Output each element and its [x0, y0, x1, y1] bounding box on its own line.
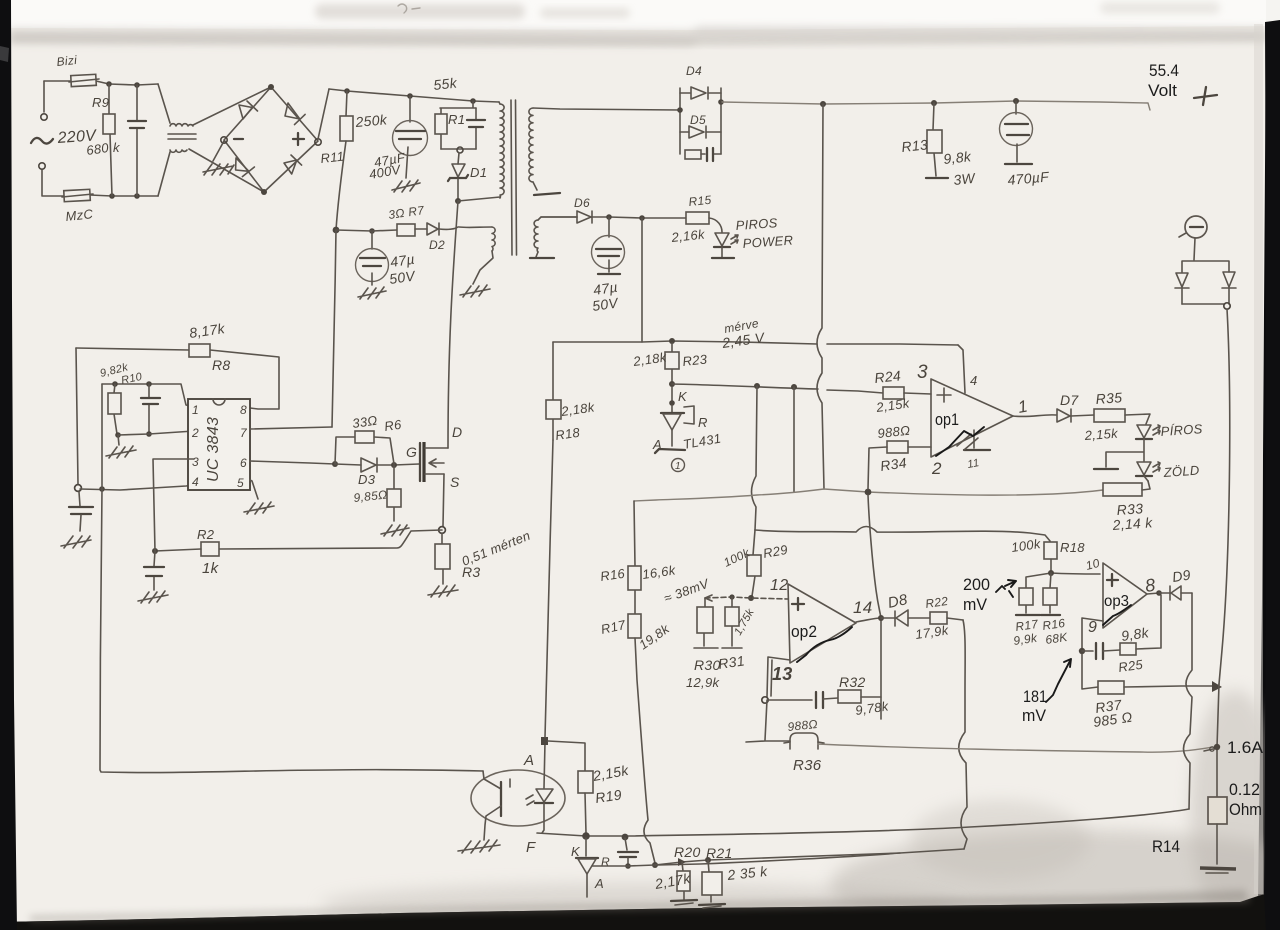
- LED PIROS: [1137, 425, 1151, 438]
- top white band above fold: [10, 0, 1266, 30]
- capacitor at left bus: [79, 492, 80, 506]
- wire: vertical from output rail with hops: [817, 104, 824, 489]
- bridge diode bottom-left: [236, 158, 255, 177]
- wire: choke to bridge top: [193, 87, 271, 125]
- wire: aux sense vertical: [641, 218, 643, 342]
- ground at 47u50V: [358, 287, 386, 299]
- svg-text:op1: op1: [935, 410, 959, 429]
- resistor R30: [704, 598, 705, 646]
- resistor R35: [1094, 409, 1125, 422]
- wire: 2,45V drop to op2/op3 with hop: [752, 386, 758, 530]
- svg-text:UC 3843: UC 3843: [205, 417, 222, 482]
- svg-text:11: 11: [966, 457, 980, 471]
- wire: pin7 VCC: [250, 427, 332, 429]
- resistor R34: [887, 441, 908, 453]
- wire: VCC vertical from aux cap: [332, 230, 336, 427]
- plus terminal hand-drawn: [1194, 87, 1217, 105]
- LED power indicator: [715, 233, 729, 246]
- resistor R24: [883, 387, 904, 399]
- svg-text:op2: op2: [791, 622, 817, 641]
- bridge diode top-right: [285, 103, 305, 125]
- diode block right vertical: [720, 88, 722, 154]
- diode D7: [1057, 409, 1071, 422]
- svg-text:3: 3: [192, 455, 199, 469]
- svg-text:D9: D9: [1171, 567, 1192, 585]
- ground below 9,85: [381, 525, 409, 536]
- svg-text:14: 14: [853, 598, 873, 617]
- capacitor at R2: [154, 551, 155, 590]
- svg-text:R13: R13: [901, 136, 929, 155]
- resistor R8 top loop: [76, 348, 279, 409]
- svg-text:K: K: [571, 844, 581, 859]
- resistor R22: [930, 612, 947, 624]
- plus input mark: [937, 388, 951, 402]
- resistor R16: [634, 501, 635, 614]
- node 1.6A measure: [1214, 744, 1220, 750]
- svg-text:680: 680: [85, 140, 110, 158]
- svg-text:A: A: [523, 752, 534, 769]
- svg-text:R32: R32: [839, 674, 866, 690]
- resistor R13 bleeder: [933, 103, 936, 176]
- resistor R18: [552, 342, 554, 440]
- gray smudges top: [315, 4, 525, 19]
- svg-text:K: K: [678, 389, 688, 404]
- ground at aux winding: [460, 285, 490, 297]
- resistor R37: [1098, 681, 1124, 694]
- AC source symbol ~: [31, 138, 53, 144]
- resistor R23: [671, 343, 673, 381]
- svg-text:2,15k: 2,15k: [1083, 426, 1119, 443]
- svg-text:R18: R18: [1060, 540, 1085, 555]
- capacitor X-cap: [136, 85, 138, 196]
- svg-text:Bizi: Bizi: [56, 53, 78, 69]
- resistor R2: [201, 542, 219, 556]
- wire: feedback line: [768, 699, 812, 701]
- svg-text:mV: mV: [1022, 706, 1047, 725]
- svg-text:3: 3: [917, 362, 928, 383]
- wire: R34 node down to op2 output: [868, 495, 881, 618]
- choke core: [168, 134, 196, 139]
- svg-text:9: 9: [1088, 619, 1097, 636]
- svg-text:R23: R23: [682, 351, 709, 369]
- svg-text:ZÖLD: ZÖLD: [1162, 463, 1200, 481]
- svg-text:R8: R8: [212, 357, 231, 373]
- choke bottom winding: [158, 152, 170, 196]
- op-amp op1: [931, 379, 1013, 457]
- wire: source down: [443, 474, 444, 526]
- svg-text:D: D: [452, 424, 462, 440]
- svg-text:4: 4: [970, 373, 978, 388]
- svg-text:R20: R20: [674, 844, 701, 860]
- wire: 2,45V reference line: [672, 384, 883, 393]
- ink arrow 181mV: [1046, 659, 1071, 702]
- wire: aux mid rail y342: [553, 341, 958, 345]
- right black bar: [1264, 20, 1280, 930]
- svg-text:2,14 k: 2,14 k: [1111, 514, 1154, 533]
- resistor R29 100k: [752, 530, 755, 596]
- op-amp op3: [1103, 563, 1147, 628]
- svg-text:1: 1: [675, 461, 681, 472]
- wire: AC neutral bottom: [90, 195, 158, 196]
- svg-text:S: S: [450, 474, 460, 490]
- svg-text:PIROS: PIROS: [735, 215, 778, 233]
- wire: right shunt bus: [1217, 684, 1219, 797]
- svg-text:R3: R3: [462, 564, 481, 580]
- wire: D9 down with hops to opto line: [1184, 593, 1193, 809]
- fold shadow band: [10, 26, 1266, 46]
- svg-text:R36: R36: [793, 757, 822, 774]
- svg-text:D7: D7: [1060, 392, 1079, 408]
- resistor R31: [731, 597, 733, 646]
- resistor R25: [1120, 643, 1136, 655]
- wire: R18 column down to A node: [545, 440, 553, 737]
- fuse F2 (MzC): [64, 189, 91, 201]
- svg-text:D6: D6: [574, 196, 590, 210]
- resistor R15: [686, 212, 709, 224]
- svg-text:181: 181: [1023, 687, 1047, 706]
- node arrow at shunt bus: [1212, 681, 1222, 692]
- capacitor feedback op3: [1082, 650, 1093, 652]
- wire: pin5 to ground: [250, 480, 258, 499]
- svg-text:5: 5: [237, 476, 244, 490]
- left black bar: [0, 0, 17, 930]
- opto transistor: [483, 771, 501, 789]
- resistor R16b: [1050, 573, 1051, 613]
- svg-text:7: 7: [240, 426, 248, 440]
- wire: ref line to op3 divider with hop: [755, 527, 1050, 542]
- ground at left cap: [61, 536, 91, 548]
- wire: right bus down: [1219, 309, 1230, 684]
- wire: feedback rail y490: [634, 489, 824, 501]
- diode D6: [577, 211, 592, 223]
- resistor R36: [790, 733, 818, 749]
- TL431 U4 shunt: [585, 838, 587, 856]
- resistor R17b: [1025, 605, 1027, 613]
- svg-text:8: 8: [240, 403, 247, 417]
- wire: op2 plus input line: [705, 597, 788, 599]
- svg-text:1.6A: 1.6A: [1227, 738, 1264, 757]
- wire: op1 pin4 supply drop: [958, 345, 965, 393]
- bottom-right scanner gray wash: [830, 830, 1280, 930]
- wire: divider tie vertical: [793, 387, 795, 492]
- wire: pin6 gate drive: [250, 461, 335, 464]
- capacitor at R10: [148, 384, 150, 433]
- faint handwriting mark top center: [398, 4, 420, 13]
- resistor R33: [1103, 483, 1142, 496]
- wire: AC live top: [44, 81, 158, 85]
- svg-text:D2: D2: [429, 238, 445, 252]
- optocoupler U3: [471, 770, 565, 826]
- resistor R18b 100k: [1044, 542, 1057, 559]
- wire: bridge+ to top rail: [318, 89, 329, 139]
- fuse F1 (Bizi): [71, 74, 97, 86]
- wire: between LEDs + left stub: [1106, 439, 1144, 467]
- wire: pin13 bracket down: [767, 657, 790, 697]
- svg-text:A: A: [652, 437, 662, 452]
- bridge diode bottom-right: [284, 155, 302, 174]
- resistor R10: [114, 384, 117, 434]
- resistor R21: [708, 860, 711, 902]
- bridge diode top-left: [239, 101, 258, 119]
- svg-text:1: 1: [192, 403, 199, 417]
- wire: diode pair bottom: [1182, 303, 1224, 305]
- svg-text:G: G: [406, 444, 417, 460]
- diode block D4/D5 left vertical: [679, 88, 681, 154]
- node R20 tap: [678, 858, 686, 866]
- svg-text:R9: R9: [92, 95, 109, 110]
- svg-text:MzC: MzC: [65, 206, 94, 224]
- wire: pin13 node down to R36: [765, 700, 767, 740]
- wire: R10 top rail to pin1: [102, 384, 195, 407]
- svg-text:200: 200: [963, 575, 990, 594]
- node: AC terminal top (open): [41, 114, 47, 120]
- capacitor 47uF 400V electrolytic: [409, 96, 411, 122]
- wire: pin9 node down to R37: [1082, 654, 1098, 689]
- resistor R7 3ohm: [397, 224, 415, 236]
- svg-text:R15: R15: [688, 193, 712, 209]
- svg-text:R24: R24: [874, 367, 902, 386]
- transformer aux winding: [492, 227, 495, 251]
- transistor Q1 MOSFET: [419, 443, 421, 481]
- wire: op1 output: [1013, 415, 1056, 417]
- resistor R19: [578, 771, 593, 793]
- node junction: [106, 81, 112, 87]
- wire: op2 output to D8: [856, 618, 881, 622]
- svg-text:1k: 1k: [202, 560, 220, 577]
- wire: long left vertical to optocoupler: [100, 489, 483, 773]
- svg-text:op3: op3: [1104, 593, 1129, 610]
- ground below R10: [118, 435, 119, 445]
- wire: R22 output down with two hops: [959, 620, 967, 849]
- diode D4: [680, 92, 690, 94]
- svg-text:D3: D3: [358, 472, 376, 487]
- capacitor feedback: [816, 692, 823, 708]
- bridge rectifier diamond: [224, 87, 318, 192]
- node A square: [541, 737, 548, 745]
- resistor R20: [682, 862, 684, 899]
- svg-text:55.4: 55.4: [1149, 61, 1179, 80]
- diode DA: [1175, 273, 1189, 288]
- resistor 9,85ohm gate pulldown: [393, 465, 395, 521]
- diode D1 zener: [458, 153, 459, 164]
- svg-text:9,8k: 9,8k: [943, 148, 973, 167]
- node: [455, 198, 461, 204]
- resistor R32: [838, 690, 861, 703]
- diode D8: [895, 610, 908, 626]
- choke / line filter top winding: [158, 84, 170, 123]
- svg-text:R30: R30: [694, 657, 721, 673]
- wire: D6 rail from lower secondary: [541, 216, 577, 218]
- svg-text:2: 2: [191, 426, 199, 440]
- svg-text:R: R: [601, 855, 610, 869]
- meter minus circle: [1185, 216, 1207, 238]
- wire: divider column down with hop over opto rail: [635, 638, 655, 863]
- ink pointer op2 to pin13: [797, 627, 852, 662]
- svg-text:A: A: [594, 876, 604, 891]
- wire: pin4 line: [80, 485, 195, 490]
- resistor R11 250k: [346, 91, 347, 116]
- wire: TL431 ref line: [592, 853, 900, 866]
- diode pair rectangle top: [1182, 261, 1229, 272]
- node open at left bus: [75, 485, 82, 492]
- LED ZOLD: [1137, 462, 1151, 475]
- diode DB: [1222, 272, 1236, 288]
- wire: choke to bridge bottom: [189, 149, 264, 192]
- svg-text:F: F: [526, 839, 536, 856]
- wire: op3 output: [1147, 593, 1159, 594]
- label plus: [293, 133, 304, 145]
- op-amp op2: [788, 584, 856, 663]
- capacitor at TL431 ref: [625, 838, 627, 850]
- wire: opto drive line long: [628, 809, 1189, 836]
- snubber R1: [440, 101, 476, 149]
- svg-text:R2: R2: [197, 527, 215, 542]
- svg-text:2: 2: [931, 459, 942, 478]
- diode D5: [680, 131, 689, 133]
- svg-text:PÍROS: PÍROS: [1160, 421, 1203, 439]
- svg-text:Volt: Volt: [1148, 81, 1177, 100]
- svg-text:mV: mV: [963, 595, 988, 614]
- transformer primary winding: [499, 102, 500, 104]
- svg-text:R: R: [698, 415, 708, 430]
- transformer core: [511, 100, 517, 255]
- TL431 U2: [671, 387, 673, 403]
- wire: aux rail: [336, 230, 397, 231]
- wire: divider node line: [1026, 573, 1100, 588]
- wire: minus to diode pair: [1194, 238, 1195, 260]
- svg-text:D4: D4: [686, 64, 702, 78]
- svg-text:12: 12: [770, 577, 788, 594]
- svg-text:55k: 55k: [433, 75, 459, 93]
- circled 1: [672, 459, 685, 472]
- capacitor 470uF output: [1015, 101, 1017, 114]
- svg-text:6: 6: [240, 456, 247, 470]
- ink pointer op3 to pin9: [1103, 605, 1131, 625]
- svg-text:Ohm: Ohm: [1229, 800, 1262, 819]
- svg-text:R6: R6: [383, 417, 403, 434]
- ink arrow 200mV: [996, 580, 1016, 597]
- resistor R17: [628, 614, 641, 638]
- ground below R2 cap: [138, 591, 168, 603]
- capacitor 47u 50V: [371, 231, 373, 249]
- svg-text:4: 4: [192, 475, 199, 489]
- diode D2: [427, 223, 439, 235]
- svg-text:0.12: 0.12: [1229, 780, 1260, 799]
- svg-text:R1: R1: [448, 112, 465, 127]
- wire: left supply bus: [76, 348, 78, 484]
- bottom shadow gradient above black edge: [0, 890, 1280, 930]
- transformer secondary winding lower: [534, 220, 538, 252]
- ink pointer op1 to pin2: [936, 427, 984, 456]
- transformer secondary winding upper: [529, 108, 533, 182]
- svg-text:12,9k: 12,9k: [686, 675, 721, 690]
- resistor R9 vertical: [109, 84, 112, 196]
- svg-text:D1: D1: [470, 165, 487, 180]
- wire: current sense to R2: [219, 530, 442, 549]
- wire: pin9 bracket: [1082, 618, 1103, 648]
- wire: AC source left vertical: [42, 81, 65, 196]
- wire: opto rail: [537, 833, 625, 836]
- node: AC terminal bottom (open): [39, 163, 45, 169]
- resistor R14 shunt: [1208, 797, 1227, 824]
- ground at R14: [1200, 868, 1236, 869]
- ground at opto emitter: [458, 840, 500, 853]
- resistor R6 33ohm bypass: [335, 437, 394, 464]
- wire: drain vertical: [448, 201, 458, 448]
- diode D3: [335, 464, 361, 465]
- TL431 ref bracket: [684, 406, 694, 424]
- wire: output vertical through R32 node: [880, 618, 882, 719]
- snubber R + C bottom branch: [685, 150, 701, 159]
- label minus: [234, 138, 243, 140]
- wire: R36 to current shunt 1.6A line: [818, 744, 1213, 752]
- svg-text:R21: R21: [706, 845, 733, 861]
- resistor R3: [442, 533, 443, 584]
- wire: pin3 down: [153, 459, 194, 551]
- wire: A node to R19: [548, 741, 585, 771]
- ground at bridge: [213, 141, 224, 161]
- svg-text:k: k: [113, 140, 121, 155]
- wire: down to TL431 ref line: [658, 849, 964, 865]
- plus mark: [792, 598, 804, 610]
- op1 power stub pin11: [973, 430, 975, 448]
- ground at 47uF400V: [392, 180, 420, 192]
- svg-text:R14: R14: [1152, 837, 1180, 856]
- wire: HV top rail: [329, 89, 499, 102]
- wire: pin2 line: [118, 431, 194, 435]
- snubber cap: [475, 108, 477, 149]
- wire: snubber bottom bar: [441, 148, 476, 150]
- capacitor 47u 50V secondary: [608, 217, 610, 237]
- IC UC3843: [188, 399, 250, 490]
- svg-text:13: 13: [772, 664, 793, 684]
- diode D9: [1170, 586, 1181, 600]
- wire: R36 left: [746, 741, 790, 742]
- svg-text:R11: R11: [320, 149, 345, 166]
- svg-text:250k: 250k: [354, 111, 389, 130]
- wire: output rail top: [722, 101, 1150, 110]
- svg-text:R35: R35: [1095, 389, 1123, 407]
- svg-text:3W: 3W: [953, 170, 978, 188]
- opto LED: [544, 742, 545, 788]
- plus mark: [1107, 574, 1118, 586]
- svg-text:D5: D5: [690, 113, 706, 127]
- ground below R3: [428, 585, 458, 597]
